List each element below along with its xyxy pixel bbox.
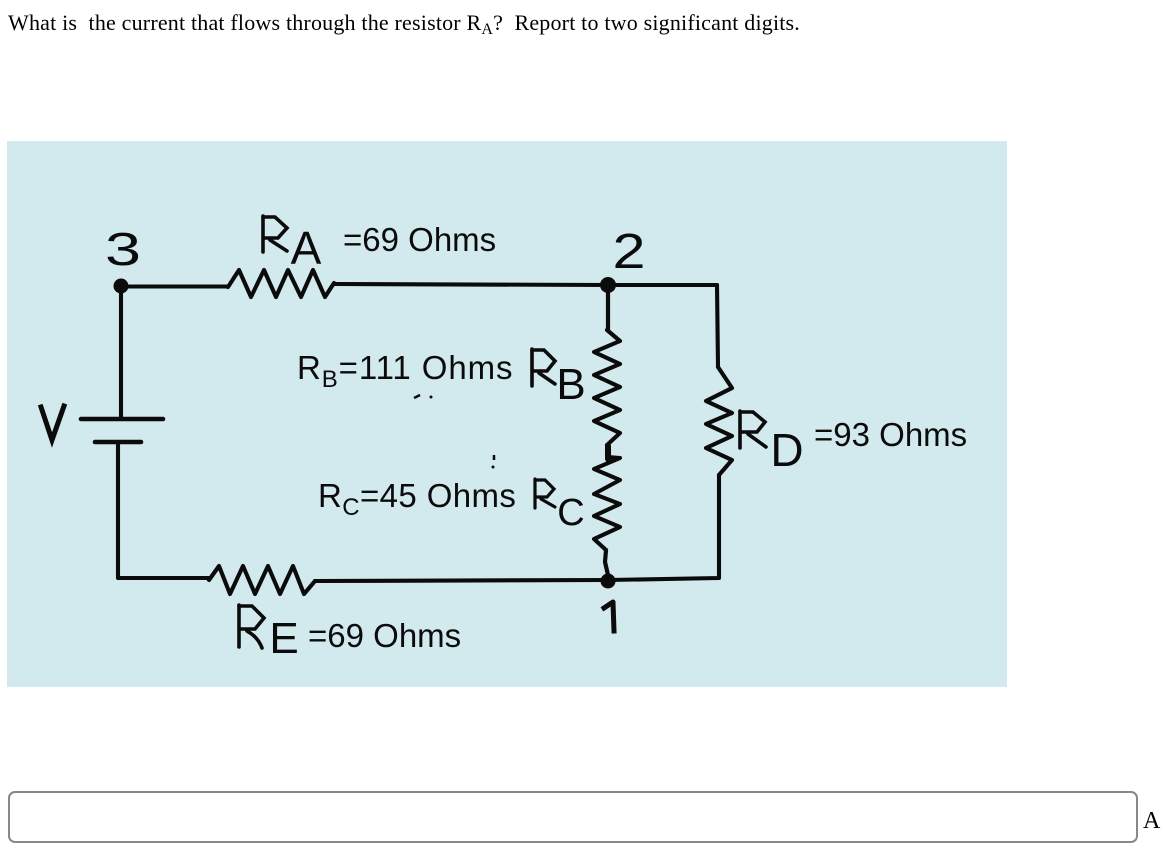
resistor RE xyxy=(209,566,315,594)
node 2 xyxy=(600,277,616,293)
label RB (hand-drawn R) xyxy=(532,349,555,386)
resistor RC xyxy=(594,457,620,550)
svg-text:2: 2 xyxy=(613,225,646,279)
junction RB-RC xyxy=(605,446,611,459)
resistor RD xyxy=(706,367,732,475)
battery plate long xyxy=(81,417,163,422)
resistor RB xyxy=(594,330,620,445)
wire RE to node1 xyxy=(315,580,608,581)
node 1 xyxy=(601,574,616,589)
svg-text:A: A xyxy=(291,222,322,274)
wire RD to bottom right corner xyxy=(608,475,719,580)
resistor RA xyxy=(228,270,334,297)
svg-text:D: D xyxy=(770,424,803,476)
battery plate short xyxy=(95,440,141,445)
label RA (hand-drawn R) xyxy=(263,216,287,252)
answer input box xyxy=(8,791,1138,843)
stray mark 3 xyxy=(493,455,496,460)
wire right corner down to RD xyxy=(717,285,718,367)
svg-text:E: E xyxy=(269,614,298,663)
wire node3 down to battery xyxy=(119,286,123,417)
wire node3 to RA xyxy=(121,284,228,288)
svg-text:=69 Ohms: =69 Ohms xyxy=(308,617,461,654)
wire RA to node2 to top-right corner xyxy=(334,284,717,285)
stray mark 4 xyxy=(492,466,495,469)
svg-text:3: 3 xyxy=(105,223,141,275)
unit label A xyxy=(1143,808,1160,835)
wire battery down to bottom-left corner xyxy=(118,444,209,578)
svg-text:RC=45 Ohms: RC=45 Ohms xyxy=(318,477,516,521)
svg-text:RB=111 Ohms: RB=111 Ohms xyxy=(297,349,513,393)
node 3 xyxy=(114,279,129,294)
node label 1 xyxy=(604,602,614,631)
svg-text:=93 Ohms: =93 Ohms xyxy=(814,416,967,453)
stray mark 2 xyxy=(430,396,433,399)
svg-text:B: B xyxy=(556,360,585,409)
svg-text:=69 Ohms: =69 Ohms xyxy=(343,221,496,258)
label RE (hand-drawn R) xyxy=(239,605,264,648)
wire node2 down to RB xyxy=(606,285,610,330)
wire RC to node1 xyxy=(605,550,608,575)
label RC (hand-drawn R) xyxy=(535,479,555,508)
svg-text:C: C xyxy=(557,492,584,534)
battery label V xyxy=(41,406,64,440)
stray mark 1 xyxy=(414,395,420,398)
label RD (hand-drawn R) xyxy=(740,411,766,448)
circuit panel background xyxy=(7,141,1007,687)
question text xyxy=(8,10,800,36)
